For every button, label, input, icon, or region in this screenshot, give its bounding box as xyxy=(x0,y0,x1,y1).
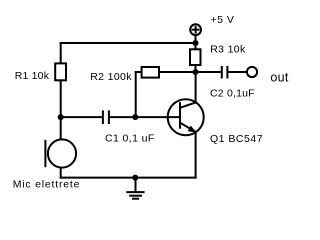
junction dot base node xyxy=(132,114,138,120)
wire R2 feedback vertical xyxy=(135,71,137,118)
junction dot supply node xyxy=(193,40,199,46)
capacitor C2 xyxy=(222,66,228,79)
junction dot collector node xyxy=(193,69,199,75)
svg-text:out: out xyxy=(270,70,289,84)
svg-text:Q1 BC547: Q1 BC547 xyxy=(210,133,263,145)
output terminal xyxy=(247,67,257,77)
svg-text:R3 10k: R3 10k xyxy=(210,44,246,56)
wire emitter xyxy=(195,132,197,179)
power +5V terminal xyxy=(190,24,201,35)
wire C1 left xyxy=(61,116,102,118)
wire base xyxy=(135,116,180,118)
wire ground rail xyxy=(60,177,197,179)
transistor Q1 xyxy=(168,99,204,135)
wire top rail xyxy=(60,42,196,44)
microphone MIC xyxy=(45,139,76,167)
svg-text:+5 V: +5 V xyxy=(211,14,235,26)
capacitor C1 xyxy=(103,110,109,124)
wire C1 right xyxy=(110,116,135,118)
junction dot ground node xyxy=(132,175,138,181)
wire R1 top xyxy=(60,42,62,63)
resistor R3 xyxy=(190,49,201,65)
svg-text:R1 10k: R1 10k xyxy=(15,70,50,82)
resistor R2 xyxy=(142,67,159,78)
svg-text:R2 100k: R2 100k xyxy=(90,71,132,83)
wire mic bottom xyxy=(60,167,62,179)
wire mic top xyxy=(60,117,62,140)
wire collector rail xyxy=(160,71,221,73)
resistor R1 xyxy=(55,63,66,80)
svg-text:C1 0,1 uF: C1 0,1 uF xyxy=(105,132,155,144)
wire collector xyxy=(195,71,197,103)
wire C2 to out xyxy=(228,71,246,73)
wire R2 left stub xyxy=(135,71,142,73)
svg-text:C2 0,1uF: C2 0,1uF xyxy=(210,87,255,99)
wire supply to R3 xyxy=(195,36,197,50)
svg-text:Mic elettrete: Mic elettrete xyxy=(13,179,81,191)
ground xyxy=(126,178,144,199)
wire R3 to collector node xyxy=(195,66,197,73)
wire R1 to base node xyxy=(60,80,62,118)
junction dot C1 left node xyxy=(58,114,64,120)
